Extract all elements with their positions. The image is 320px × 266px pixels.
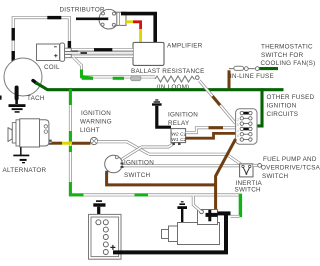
wire brown/yellow alternator to warning light bbox=[52, 142, 91, 145]
svg-text:SWITCH: SWITCH bbox=[235, 186, 262, 193]
svg-text:TACH: TACH bbox=[27, 95, 45, 102]
svg-text:FUEL PUMP AND: FUEL PUMP AND bbox=[263, 156, 317, 163]
wire yellow/red distributor pickup to amplifier bbox=[126, 22, 141, 43]
ground relay bbox=[152, 99, 171, 127]
wire white coil positive to amplifier bbox=[66, 55, 133, 58]
wire white/brown ballast to fuse box (diagonal) bbox=[199, 81, 235, 124]
wire black LT lead into distributor rotor bbox=[76, 17, 109, 20]
svg-text:LIGHT: LIGHT bbox=[80, 127, 100, 134]
svg-text:8: 8 bbox=[237, 134, 239, 138]
svg-text:BALLAST RESISTANCE: BALLAST RESISTANCE bbox=[131, 68, 205, 75]
wire black distributor to amplifier bbox=[121, 14, 155, 43]
wire white warning light to crossing bbox=[98, 142, 150, 154]
alternator bbox=[8, 119, 52, 147]
battery positive cable to solenoid bbox=[113, 215, 226, 252]
wire brown fuse box to starter solenoid (diagonal) bbox=[216, 139, 236, 210]
label FUEL PUMP AND OVERDRIVE/TCSA SWITCH bbox=[261, 156, 320, 180]
battery bbox=[89, 214, 122, 259]
svg-text:W1 C2: W1 C2 bbox=[171, 137, 186, 143]
svg-text:DISTRIBUTOR: DISTRIBUTOR bbox=[60, 7, 106, 14]
edge mark left bbox=[0, 96, 2, 100]
wire green/white vertical branch to warning light and fuel line bbox=[70, 89, 83, 195]
label OTHER FUSED IGNITION CIRCUITS bbox=[267, 94, 315, 118]
ground alternator bbox=[13, 147, 29, 163]
wire white solenoid feed (diagonal) bbox=[193, 196, 200, 211]
svg-text:COOLING FAN(S): COOLING FAN(S) bbox=[261, 60, 316, 67]
wire white coil HT middle to amplifier bbox=[66, 51, 133, 54]
svg-text:CIRCUITS: CIRCUITS bbox=[267, 111, 299, 118]
ignition switch bbox=[105, 155, 124, 173]
wire white/brown relay C1 to fuse box bbox=[186, 128, 236, 133]
wire green/white coil positive to ballast resistor bbox=[74, 58, 156, 81]
fuse box bbox=[236, 109, 257, 144]
svg-text:AMPLIFIER: AMPLIFIER bbox=[167, 43, 203, 50]
ballast resistor (zigzag) bbox=[155, 76, 199, 82]
wire white/black coil negative to amplifier bbox=[69, 50, 133, 54]
wire white/black tach to coil negative bbox=[13, 18, 69, 62]
svg-text:SWITCH: SWITCH bbox=[124, 172, 151, 179]
starter motor bbox=[162, 223, 220, 245]
in-line fuse bbox=[229, 66, 259, 88]
svg-text:W2 C1: W2 C1 bbox=[171, 132, 186, 138]
wire white ignition switch to inertia switch (lower) bbox=[123, 164, 240, 167]
svg-text:SWITCH FOR: SWITCH FOR bbox=[261, 52, 304, 59]
wire white crossing to inertia switch (upper) bbox=[149, 154, 241, 164]
svg-text:SWITCH: SWITCH bbox=[262, 173, 289, 180]
label IGNITION SWITCH bbox=[124, 160, 154, 180]
wire white/green fuel pump feed line bbox=[84, 194, 241, 218]
ignition relay bbox=[171, 129, 187, 145]
wire green main feed from tach bbox=[36, 83, 284, 126]
amplifier U1 bbox=[133, 42, 164, 65]
distributor bbox=[98, 9, 126, 29]
label INERTIA SWITCH bbox=[235, 180, 263, 194]
svg-text:OTHER FUSED: OTHER FUSED bbox=[267, 94, 315, 101]
svg-text:ALTERNATOR: ALTERNATOR bbox=[3, 167, 47, 174]
svg-text:OVERDRIVE/TCSA: OVERDRIVE/TCSA bbox=[261, 165, 320, 172]
wire brown ignition switch feed bbox=[107, 173, 216, 185]
wire green in-line fuse to cooling fan switch bbox=[259, 67, 278, 70]
svg-text:RELAY: RELAY bbox=[168, 120, 190, 127]
label THERMOSTATIC SWITCH FOR COOLING FAN(S) bbox=[261, 43, 316, 67]
svg-text:IGNITION: IGNITION bbox=[267, 103, 297, 110]
svg-text:IGNITION: IGNITION bbox=[124, 160, 154, 167]
svg-text:3: 3 bbox=[237, 118, 239, 122]
ignition warning light bulb bbox=[90, 137, 97, 144]
svg-text:IN-LINE FUSE: IN-LINE FUSE bbox=[230, 73, 274, 80]
ground battery bbox=[93, 200, 105, 220]
wire brown relay C2 to fuse box bbox=[186, 133, 236, 138]
svg-text:4: 4 bbox=[237, 129, 239, 133]
wire white ignition switch to relay bbox=[121, 144, 173, 160]
inertia switch bbox=[240, 164, 262, 177]
tach bbox=[4, 58, 42, 99]
svg-text:WARNING: WARNING bbox=[80, 119, 112, 126]
label IGNITION RELAY bbox=[168, 112, 198, 128]
svg-text:COIL: COIL bbox=[44, 64, 60, 71]
svg-text:THERMOSTATIC: THERMOSTATIC bbox=[261, 43, 313, 50]
ground tach bbox=[9, 98, 26, 113]
svg-text:IGNITION: IGNITION bbox=[168, 112, 198, 119]
svg-text:IGNITION: IGNITION bbox=[81, 110, 111, 117]
svg-text:5: 5 bbox=[237, 123, 239, 127]
starter solenoid bbox=[198, 210, 231, 225]
label IGNITION WARNING LIGHT bbox=[80, 110, 112, 134]
ground starter bbox=[177, 201, 187, 223]
coil bbox=[37, 43, 72, 61]
